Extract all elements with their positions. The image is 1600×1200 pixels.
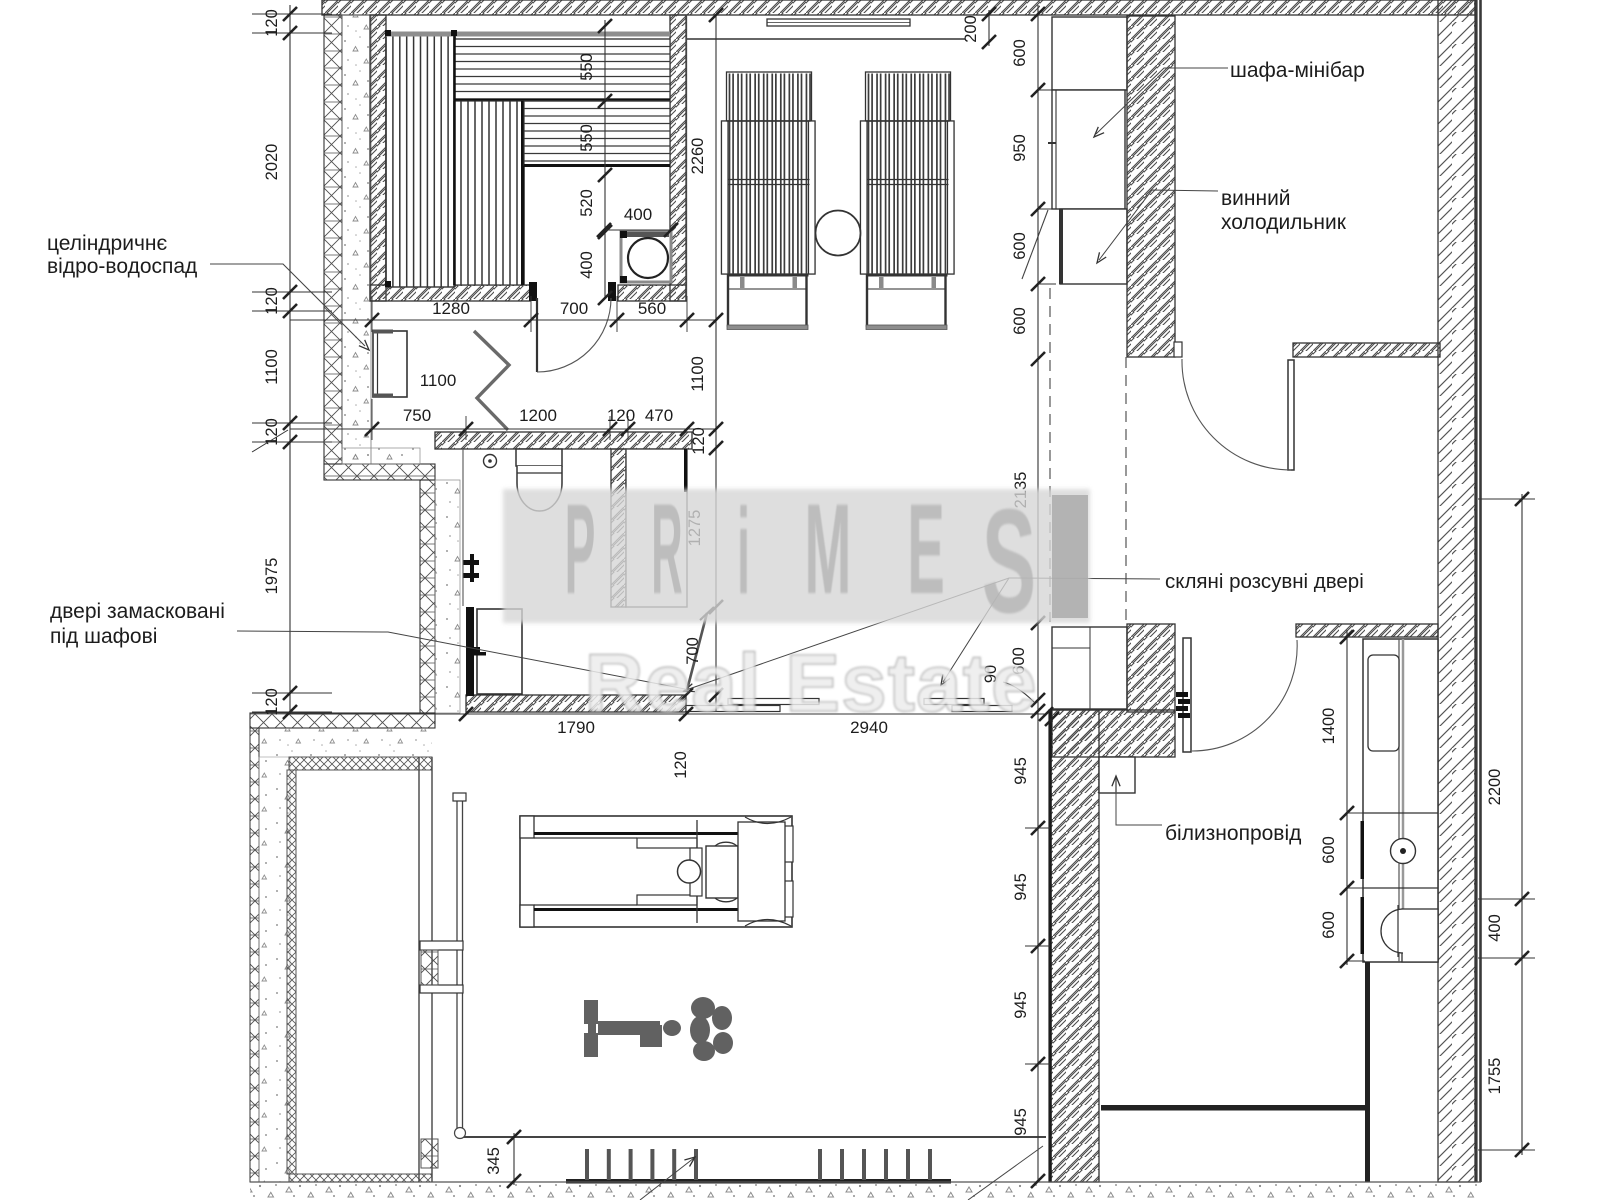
svg-text:120: 120 [672, 751, 690, 779]
wall: top exterior wall (hatched) [322, 0, 1475, 15]
svg-text:скляні розсувні двері: скляні розсувні двері [1165, 570, 1364, 593]
svg-text:2020: 2020 [263, 144, 281, 181]
door jamb: sauna door left (black) [529, 282, 537, 301]
sauna bench divider line [453, 33, 456, 285]
svg-text:400: 400 [624, 205, 652, 224]
svg-text:550: 550 [578, 53, 596, 81]
svg-text:600: 600 [1320, 836, 1338, 864]
wall: lower-left speckled core [259, 728, 432, 757]
svg-text:білизнопровід: білизнопровід [1165, 822, 1301, 845]
svg-text:120: 120 [607, 406, 635, 425]
dryer/sink box with semicircle [1402, 909, 1438, 962]
svg-text:E: E [907, 476, 945, 620]
wall: sauna right wall [670, 15, 686, 301]
closet column outline [1363, 639, 1438, 962]
laundry chute box [1099, 757, 1135, 793]
closet inner divider [1398, 639, 1400, 962]
wall: stub above laundry door (hatched) [1296, 624, 1438, 637]
wall: gym right wall (hatched) [1049, 710, 1099, 1182]
floor drain (circle) [484, 455, 497, 468]
svg-text:400: 400 [1486, 914, 1504, 942]
svg-text:120: 120 [263, 287, 281, 315]
dimension chain: closet (1400/600/600) [1320, 630, 1365, 968]
svg-text:S: S [982, 479, 1036, 644]
lounger 1 (slatted chaise) [722, 72, 816, 330]
sauna bench D: horizontal slats (second tier) [524, 101, 670, 166]
svg-text:470: 470 [645, 406, 673, 425]
wall: speckled core beside bathroom [435, 480, 460, 713]
svg-text:холодильник: холодильник [1221, 211, 1347, 234]
gym wall bars (posts) [585, 1149, 589, 1180]
svg-text:1975: 1975 [263, 558, 281, 595]
closet shelf (rounded) [1368, 655, 1399, 751]
svg-text:1100: 1100 [263, 349, 281, 384]
svg-text:600: 600 [1011, 307, 1029, 335]
glass partition end cap [453, 793, 466, 801]
wall: right exterior wall inner double line [1475, 0, 1477, 1182]
dimension: ledge (200) [962, 7, 996, 49]
cabinet: corridor end (600) [1052, 627, 1127, 709]
pool right edge lines [418, 757, 420, 1182]
sauna bench A: vertical slats (left) [386, 33, 455, 287]
folding shower screen (zigzag) [474, 331, 509, 430]
door: right room leaf [1288, 360, 1294, 470]
sauna door swing arc [537, 298, 611, 372]
cabinet open-door diagonal [1022, 210, 1048, 279]
dimension: sauna bottom (1280/700/560) [290, 296, 716, 332]
leader: right bottom (from bottom edge) [968, 1146, 1043, 1200]
svg-text:під шафові: під шафові [50, 625, 157, 648]
door jamb: sauna door right (black) [608, 282, 616, 301]
wall: right room left wall (hatched) [1127, 16, 1175, 357]
bathroom left edge line [462, 449, 464, 606]
laundry room counter line (thick) [1101, 1105, 1368, 1111]
wall: left X-braced strip (mid, beside bathroom) [420, 480, 435, 713]
wall: sauna left wall [370, 15, 386, 301]
svg-text:600: 600 [1320, 911, 1338, 939]
pool-side X column 2 [421, 1139, 438, 1168]
closet section lines [1363, 812, 1438, 814]
svg-text:200: 200 [962, 15, 980, 43]
svg-text:1755: 1755 [1486, 1058, 1504, 1095]
svg-text:120: 120 [690, 427, 708, 455]
dimension chain: left (120/2020/120/1100/120/1975/120) [252, 5, 332, 719]
door: laundry swing arc [1192, 640, 1297, 751]
cabinet: minibar column top [1052, 17, 1127, 90]
svg-text:винний: винний [1221, 187, 1291, 210]
disguised door: panel [477, 609, 522, 694]
pivot door tick [700, 607, 714, 620]
sauna bench B: horizontal slats (top) [454, 39, 670, 100]
svg-text:шафа-мінібар: шафа-мінібар [1230, 59, 1365, 82]
svg-text:P: P [565, 479, 596, 621]
svg-text:i: i [737, 482, 750, 619]
dimension: gym bars (345) [485, 1130, 521, 1188]
svg-text:целіндричнє: целіндричнє [47, 232, 167, 255]
svg-text:750: 750 [403, 406, 431, 425]
gym wall-bars baseline [566, 1179, 951, 1184]
svg-text:1200: 1200 [519, 406, 557, 425]
pool ladder circle [455, 1128, 466, 1139]
dimension: corridor (1790/2940/120) [290, 688, 1059, 779]
radiator/shelf on ledge [767, 19, 910, 26]
svg-text:R: R [651, 478, 682, 621]
svg-text:M: M [805, 476, 852, 620]
treadmill / press bench (top view) [520, 816, 793, 927]
wall: left exterior X-braced strip (upper) [324, 15, 342, 464]
disguised door: open leaf (black bar) [466, 607, 474, 696]
sauna bench top edge bar (grey) [386, 32, 670, 37]
sauna heater (circle) [628, 238, 668, 278]
glass partition pool/gym [456, 797, 458, 1137]
pool-side shelf box 2 [420, 985, 463, 993]
wall: duct left wall (hatched) [611, 449, 626, 607]
pool rim top (tiled) [289, 757, 432, 770]
wall: right room bottom wall (hatched band) [1293, 343, 1440, 357]
sliding glass door 2 (two offset panels) [924, 699, 984, 705]
bottom band top edge [250, 1181, 1481, 1183]
wall: lower-left speckled core vertical [259, 757, 290, 1182]
wall: right exterior wall (hatched) [1438, 0, 1475, 1182]
wall: gym-laundry L wall upper (hatched) [1127, 624, 1175, 712]
svg-text:відро-водоспад: відро-водоспад [47, 255, 197, 278]
sauna bench C: vertical slats (second tier) [454, 101, 524, 285]
sliding glass door 1 (two offset panels) [728, 699, 819, 705]
svg-text:120: 120 [263, 9, 281, 37]
svg-text:600: 600 [1011, 232, 1029, 260]
svg-text:120: 120 [263, 418, 281, 446]
cabinet: wine fridge (600) [1060, 209, 1127, 284]
dimension chain: sauna benches (550/550/520/400) [578, 19, 612, 305]
dashed line: sliding partition track A [1049, 288, 1051, 622]
wall: right room bottom stub [1174, 342, 1182, 357]
door: laundry corridor leaf [1183, 638, 1191, 752]
svg-text:945: 945 [1012, 757, 1030, 785]
disguised door: handle [466, 647, 480, 652]
dimension chain: outer right (2200/400/1755) [1478, 492, 1535, 1157]
closet door edge black segments [1361, 821, 1365, 879]
svg-text:520: 520 [578, 189, 596, 217]
dimension chain: centre (2260/1100/120/1275/700) [684, 8, 723, 712]
gym bottom line [460, 1136, 1046, 1138]
door: right room swing arc [1182, 359, 1291, 470]
svg-text:950: 950 [1011, 134, 1029, 162]
ledge line under top wall [687, 38, 965, 40]
pool-side X column 1 [421, 950, 438, 985]
exercise machine silhouette (grey) [584, 997, 733, 1061]
wall: gym-laundry L wall horizontal (hatched) [1052, 710, 1175, 757]
leader: wall bars (from bottom edge) [640, 1158, 694, 1200]
wall: gym right wall dark edge [1049, 710, 1052, 1182]
svg-text:1100: 1100 [420, 371, 457, 390]
bottom exterior speckled band [250, 1182, 1481, 1200]
closet lower partition (thick line) [1365, 962, 1370, 1182]
svg-text:600: 600 [1011, 39, 1029, 67]
pool rim bottom (tiled) [289, 1174, 432, 1182]
label: doors disguised as cabinets + leader [50, 600, 225, 648]
lounger room left boundary [686, 15, 688, 300]
svg-text:1400: 1400 [1320, 708, 1338, 745]
svg-text:2260: 2260 [689, 138, 707, 175]
duct shaft [626, 449, 687, 607]
lounger 2 (slatted chaise) [861, 72, 955, 330]
svg-text:945: 945 [1012, 1108, 1030, 1136]
svg-text:700: 700 [560, 299, 588, 318]
svg-text:945: 945 [1012, 873, 1030, 901]
sauna heater enclosure [620, 231, 671, 283]
cabinet: minibar (950) [1052, 90, 1125, 209]
bucket-waterfall stand [372, 330, 407, 398]
label: cylindrical bucket-waterfall + leader [47, 232, 197, 278]
wall: lower-left X-braced band (horizontal) [250, 713, 435, 728]
pivot door leaf (diagonal) [687, 613, 707, 690]
wall: band under wet room (hatched) [435, 432, 692, 449]
svg-text:560: 560 [638, 299, 666, 318]
dashed line: sliding partition track B [1125, 357, 1127, 622]
dimension chain: right of plan (600/950/600/600/2135/600/90/945x4) [982, 5, 1056, 1188]
dimension: heater width (400) [597, 205, 678, 237]
sauna bench corner blocks [385, 30, 391, 36]
toilet [516, 449, 562, 511]
pool-side shelf box 1 [420, 941, 463, 950]
svg-text:550: 550 [578, 124, 596, 152]
svg-text:945: 945 [1012, 991, 1030, 1019]
svg-text:400: 400 [578, 251, 596, 279]
svg-text:Real Estate: Real Estate [584, 638, 1037, 729]
door: laundry hinge marks [1176, 692, 1190, 718]
svg-text:345: 345 [485, 1147, 503, 1175]
svg-text:1280: 1280 [432, 299, 470, 318]
dimension: wet room (750/1200/120/470 and 1100) [290, 371, 716, 440]
side table (circle) [816, 211, 861, 256]
wall: lower-left X-braced strip (vertical) [250, 728, 259, 1182]
watermark: PRiMES band [503, 476, 1090, 644]
sauna door leaf [536, 298, 538, 372]
svg-text:1100: 1100 [689, 356, 707, 391]
wall: left exterior X-braced turn (wet room bottom) [324, 464, 435, 480]
duct shaft dark edge [684, 449, 687, 492]
wall: sauna bottom wall right of door [618, 285, 686, 301]
svg-text:120: 120 [263, 688, 281, 716]
towel rail marks [463, 560, 479, 565]
svg-text:двері замасковані: двері замасковані [50, 600, 225, 623]
pool rim left (tiled) [287, 770, 296, 1174]
svg-text:2200: 2200 [1486, 769, 1504, 806]
washing machine (circle with dot) [1391, 839, 1416, 864]
wall: sauna bottom wall left of door [370, 285, 530, 301]
wall: left exterior speckled core (upper) [342, 15, 371, 464]
wall: band under hidden room (hatched, sliding door wall) [466, 695, 686, 712]
wall: speckled core turn [342, 448, 420, 464]
